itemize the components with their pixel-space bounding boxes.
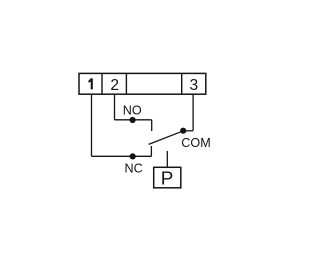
svg-text:P: P <box>161 169 174 190</box>
terminal divider 2|blank <box>125 73 127 94</box>
svg-text:3: 3 <box>190 77 199 94</box>
wire NO contact stub <box>151 120 153 131</box>
wire COM horizontal <box>183 130 193 132</box>
wire terminal 1 down <box>91 94 93 156</box>
wire NO horizontal <box>115 119 152 121</box>
svg-text:NC: NC <box>124 162 142 176</box>
wire terminal 3 down <box>192 94 194 131</box>
wire NC contact stub <box>150 146 152 156</box>
terminal block outline <box>79 73 206 94</box>
node NO dot <box>130 117 136 123</box>
pressure switch box P <box>154 167 181 188</box>
svg-text:COM: COM <box>181 136 210 150</box>
svg-text:NO: NO <box>123 104 142 118</box>
node NC dot <box>130 153 136 159</box>
wire NC horizontal <box>92 155 152 157</box>
actuator link <box>166 151 168 167</box>
node COM dot <box>180 128 186 134</box>
wire terminal 2 down <box>114 94 116 120</box>
svg-text:2: 2 <box>110 77 119 94</box>
terminal divider blank|3 <box>181 73 183 94</box>
terminal label 1 <box>88 78 92 89</box>
switch lever <box>149 131 184 145</box>
terminal divider 1|2 <box>101 73 103 94</box>
